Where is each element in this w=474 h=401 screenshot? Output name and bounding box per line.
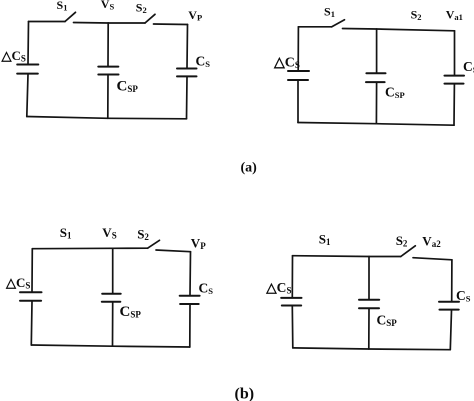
wire left vertical upper bbox=[297, 27, 299, 70]
wire from S2 to top-right corner bbox=[413, 258, 452, 260]
capacitor Cs (bottom-right) bbox=[439, 301, 459, 303]
wire top-left segment bbox=[29, 21, 66, 23]
wire middle vertical lower bbox=[375, 83, 377, 124]
capacitor Csp (bottom-left) bbox=[102, 293, 121, 295]
wire right vertical lower bbox=[189, 305, 191, 347]
wire right vertical lower bbox=[450, 310, 451, 349]
capacitor Cs (top-left) bbox=[177, 68, 197, 70]
wire top segment to S2 bbox=[32, 247, 147, 250]
wire from node VS to S2 bbox=[108, 22, 145, 24]
svg-text:CS: CS bbox=[463, 59, 474, 75]
wire right vertical upper bbox=[454, 31, 456, 75]
capacitor Csp (top-left) bbox=[98, 66, 118, 68]
capacitor dCs (top-left) bbox=[17, 64, 38, 66]
wire top-left segment bbox=[298, 26, 331, 28]
wire from S1 to node VS bbox=[74, 22, 109, 25]
wire left vertical upper bbox=[27, 22, 30, 64]
svg-text:(b): (b) bbox=[235, 385, 255, 401]
capacitor Cs (top-right) bbox=[445, 75, 465, 77]
wire left vertical upper bbox=[31, 249, 33, 292]
capacitor dCs (bottom-right) bbox=[281, 297, 301, 299]
wire right vertical upper bbox=[189, 252, 192, 295]
capacitor Cs (bottom-left) bbox=[180, 295, 200, 297]
svg-text:(a): (a) bbox=[241, 160, 258, 175]
capacitor dCs (bottom-left) bbox=[20, 291, 42, 293]
wire right vertical lower bbox=[453, 84, 455, 125]
capacitor Csp (bottom-right) bbox=[359, 299, 379, 301]
wire middle vertical lower bbox=[107, 75, 109, 118]
wire bottom bbox=[27, 117, 187, 119]
wire middle vertical lower bbox=[368, 309, 370, 349]
wire left vertical lower bbox=[30, 302, 33, 345]
wire from S2 to top-right corner bbox=[154, 23, 188, 26]
svg-text:VS: VS bbox=[101, 0, 115, 12]
wire middle vertical lower bbox=[112, 303, 114, 347]
wire right vertical upper bbox=[451, 260, 453, 301]
wire bottom bbox=[298, 123, 454, 126]
wire from S2 to top-right corner bbox=[156, 250, 191, 252]
wire right vertical lower bbox=[186, 77, 189, 119]
wire middle vertical upper bbox=[112, 248, 114, 293]
capacitor dCs (top-right) bbox=[288, 70, 309, 72]
wire bottom bbox=[31, 345, 190, 347]
wire right vertical upper bbox=[186, 25, 189, 68]
wire middle vertical upper bbox=[368, 257, 370, 300]
switch S1 (open blade) bbox=[332, 20, 345, 27]
wire middle vertical upper bbox=[376, 29, 378, 73]
capacitor Csp (top-right) bbox=[366, 72, 385, 74]
wire from S1 through node VS to top-right corner (S2 closed) bbox=[343, 29, 455, 31]
wire left vertical lower bbox=[297, 81, 299, 123]
svg-text:S1: S1 bbox=[57, 0, 68, 12]
wire left vertical lower bbox=[27, 74, 28, 116]
switch S1 (open blade) bbox=[65, 12, 76, 21]
wire middle vertical upper bbox=[107, 23, 109, 66]
wire top segment to S2 bbox=[293, 255, 401, 258]
wire left vertical upper bbox=[291, 256, 293, 297]
wire left vertical lower bbox=[291, 306, 294, 348]
wire bottom bbox=[293, 348, 451, 350]
switch S2 (open blade) bbox=[148, 240, 160, 248]
switch S2 (open blade) bbox=[145, 14, 155, 23]
switch S2 (open blade) bbox=[401, 246, 416, 257]
